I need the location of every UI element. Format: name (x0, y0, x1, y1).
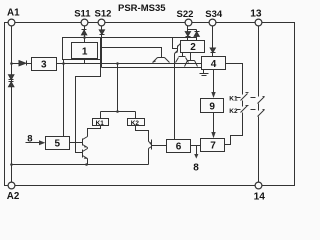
transistor pair under box 2 left (182, 53, 184, 57)
terminal 13 wire (258, 23, 260, 97)
wire contact K2 to terminal 14 (258, 117, 260, 186)
svg-text:5: 5 (55, 139, 61, 150)
diode D3 (series supply diode) (19, 61, 26, 66)
wire box 4 to contact line (226, 64, 243, 95)
svg-text:K1: K1 (229, 96, 238, 103)
contact K1 mech dashes (237, 97, 241, 99)
transistor Q1 (158, 57, 165, 59)
wire left contact chain down to box 7 (225, 113, 243, 145)
svg-text:S34: S34 (205, 9, 223, 20)
arrow 8 into box 5 (26, 142, 40, 144)
wire K1 coil to Darlington collector (88, 126, 101, 137)
wire box 5 output to Darlington (70, 142, 83, 144)
node junction A1 branch (10, 62, 13, 65)
svg-text:3: 3 (41, 60, 47, 71)
wire rect corner down-left-down to Darlington base (76, 60, 101, 153)
svg-text:6: 6 (176, 142, 182, 153)
terminal S11 (81, 19, 88, 26)
terminal A2 (8, 182, 15, 189)
wire T2 emitter to ground bus (87, 159, 89, 165)
terminal 13 (255, 19, 262, 26)
svg-text:S11: S11 (74, 9, 91, 20)
box 3 (32, 58, 57, 71)
terminal S22 (185, 19, 192, 26)
terminal S12 (98, 19, 105, 26)
transistor pair under box 2 right (190, 53, 192, 61)
transistor Q2 (177, 46, 179, 52)
node K coil feed (116, 62, 119, 65)
wire K coil feed (117, 64, 119, 112)
contact K2 mech dashes (237, 109, 241, 111)
svg-text:1: 1 (82, 47, 88, 58)
wire Q1 base from rect right edge (101, 48, 162, 58)
wire box 6 to box 7 (191, 145, 201, 147)
svg-text:A2: A2 (7, 191, 20, 202)
svg-text:K2: K2 (229, 108, 238, 115)
transistor T1 (Darlington upper) (82, 139, 84, 146)
arrow box 4 to box 9 (213, 70, 215, 93)
arrow 8 output down (196, 146, 198, 155)
wire Q2 base branch from top wire (173, 38, 178, 49)
transistor T3 (K2 driver) (151, 140, 153, 150)
relay coil K2 (128, 119, 145, 126)
ground under box 4 (203, 70, 205, 74)
svg-text:PSR-MS35: PSR-MS35 (118, 3, 166, 14)
wire to box 5 from rect bottom-left (63, 60, 65, 137)
svg-text:K1: K1 (96, 120, 105, 127)
box 2 (181, 41, 205, 53)
wire diode to box 3 (27, 63, 32, 65)
wire Q2 emitter down to box 6 (174, 54, 176, 140)
contact K2 blades (241, 106, 248, 113)
wire between contacts left (242, 101, 244, 107)
terminal S22 wire and diode (187, 23, 189, 41)
box 6 (167, 140, 191, 153)
transistor T2 (Darlington lower) (82, 150, 84, 158)
svg-text:7: 7 (210, 141, 216, 152)
suppressor diode (TVS) on A1 line (9, 75, 14, 80)
wire K coil split (101, 111, 136, 113)
box 5 (46, 137, 70, 150)
svg-text:14: 14 (254, 192, 266, 203)
wire T1 emitter to T2 collector (87, 148, 89, 149)
box 9 (201, 99, 224, 113)
box 7 (201, 139, 225, 152)
antiparallel diode beside S22 (188, 29, 197, 31)
box 4 (202, 57, 226, 70)
wire box 1 to bus (84, 59, 86, 64)
bus wire from box 3 to box 4 (57, 63, 202, 65)
outer frame (5, 23, 295, 186)
svg-text:2: 2 (190, 42, 196, 53)
inner rectangle around box 1 (63, 38, 101, 60)
svg-text:S12: S12 (95, 9, 112, 20)
terminal S12 wire and diode (101, 23, 103, 68)
wire top horizontal from rect to S22 diodes (101, 37, 197, 39)
terminal 14 (255, 182, 262, 189)
terminal A1 (8, 19, 15, 26)
terminal S11 wire and diode (84, 23, 86, 43)
contact K1 blades (241, 94, 248, 101)
wire A1 vertical (11, 23, 13, 186)
wire K2 coil to transistor T3 (136, 126, 149, 142)
svg-text:A1: A1 (7, 8, 20, 19)
terminal S34 wire and diode (212, 23, 214, 57)
node S11 on top wire (83, 36, 86, 39)
terminal S34 (209, 19, 216, 26)
wire A1 to diode (12, 63, 19, 65)
wire between contacts right (258, 104, 260, 111)
box 1 (72, 43, 98, 59)
svg-text:9: 9 (209, 101, 215, 112)
wire T3 emitter to ground bus (148, 149, 150, 165)
svg-text:4: 4 (211, 59, 217, 70)
ground bus wire (12, 164, 149, 166)
wire T3 base to box 6 (152, 145, 167, 147)
wire S12 line horizontal to box 4 (102, 67, 202, 69)
relay coil K1 (93, 119, 109, 126)
svg-text:8: 8 (193, 162, 199, 173)
svg-text:S22: S22 (177, 9, 194, 20)
arrow box 9 to box 7 (213, 113, 215, 133)
svg-text:13: 13 (250, 8, 262, 19)
